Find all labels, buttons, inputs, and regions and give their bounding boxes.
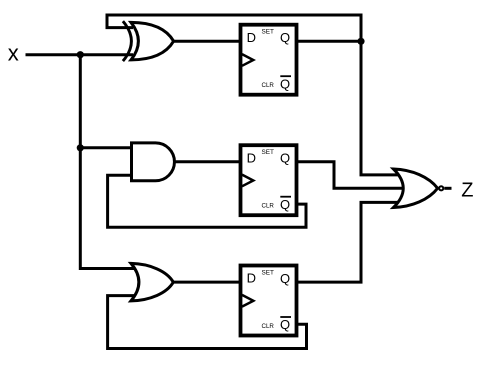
wire x vertical branch down to OR gate top input (80, 53, 137, 268)
svg-text:Q: Q (280, 271, 290, 286)
and gate G2 (132, 143, 175, 181)
wire x input horizontal (26, 53, 134, 56)
clock triangle U1 (242, 54, 253, 66)
svg-text:D: D (247, 150, 256, 165)
flip-flop U1 (top D flip-flop) (241, 25, 297, 95)
svg-text:D: D (247, 30, 256, 45)
output bubble (439, 186, 443, 190)
xor gate G1 (123, 21, 174, 61)
svg-text:Q: Q (280, 151, 290, 166)
wire feedback from FF1 Q to XOR top input (107, 15, 400, 175)
node junction dot at FF1 Q feedback (357, 38, 364, 45)
wire junction to AND gate top input (80, 146, 133, 149)
svg-text:SET: SET (262, 149, 275, 156)
svg-text:SET: SET (262, 269, 275, 276)
svg-text:CLR: CLR (262, 82, 275, 89)
flip-flop U2 (middle D flip-flop) (241, 145, 297, 215)
wire NOR output to Z (444, 187, 451, 190)
svg-text:Q: Q (280, 30, 290, 45)
svg-text:Z: Z (461, 180, 473, 202)
svg-text:Q: Q (280, 197, 290, 212)
svg-text:CLR: CLR (262, 323, 275, 330)
wire FF2 Q to NOR middle input (296, 162, 404, 189)
svg-text:D: D (247, 271, 256, 286)
node junction dot at AND branch (77, 144, 84, 151)
svg-text:CLR: CLR (262, 203, 275, 210)
wire FF3 Qbar feedback to OR bottom input (108, 296, 307, 349)
flip-flop U3 (bottom D flip-flop) (241, 266, 297, 336)
svg-text:SET: SET (262, 29, 275, 36)
svg-text:Q: Q (280, 317, 290, 332)
wire FF3 Q to NOR bottom input (296, 202, 400, 282)
wire OR output to FF3 D (172, 281, 240, 284)
svg-text:Q: Q (280, 76, 290, 91)
nor gate G4 (394, 169, 444, 208)
clock triangle U3 (242, 295, 253, 307)
clock triangle U2 (242, 175, 253, 187)
wire AND output to FF2 D (173, 160, 240, 163)
wire FF1 Q to right vertical junction (296, 40, 361, 43)
wire FF2 Qbar feedback to AND bottom input (108, 175, 306, 227)
or gate G3 (131, 263, 173, 301)
wire XOR output to FF1 D (172, 40, 240, 43)
svg-text:x: x (8, 41, 19, 66)
node junction dot on x line (77, 51, 84, 58)
